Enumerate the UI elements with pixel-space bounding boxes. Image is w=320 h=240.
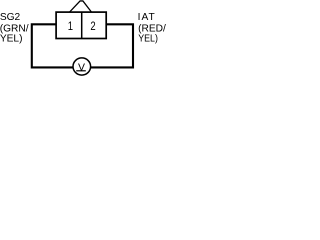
svg-text:YEL): YEL) [0, 33, 22, 44]
node IAT label [138, 12, 156, 23]
connector body [56, 12, 106, 38]
voltmeter V symbol [78, 62, 85, 73]
voltmeter symbol underline [76, 70, 86, 72]
svg-text:IAT: IAT [138, 12, 156, 23]
connector lock tab [70, 1, 92, 12]
node SG2 label [0, 12, 21, 23]
svg-text:2: 2 [90, 20, 95, 33]
wire from pin 2 to voltmeter (right) [91, 24, 133, 67]
connector cavity divider [81, 12, 83, 38]
svg-text:V: V [78, 62, 85, 73]
svg-text:SG2: SG2 [0, 12, 21, 23]
svg-text:YEL): YEL) [138, 33, 158, 45]
voltmeter body [73, 58, 91, 75]
svg-text:1: 1 [68, 20, 73, 33]
wire color label (GRN/YEL) [0, 23, 29, 44]
wire from pin 1 to voltmeter (left) [32, 24, 73, 67]
wire color label (RED/YEL) [138, 23, 166, 44]
pin 1 [68, 20, 73, 33]
pin 2 [90, 20, 95, 33]
